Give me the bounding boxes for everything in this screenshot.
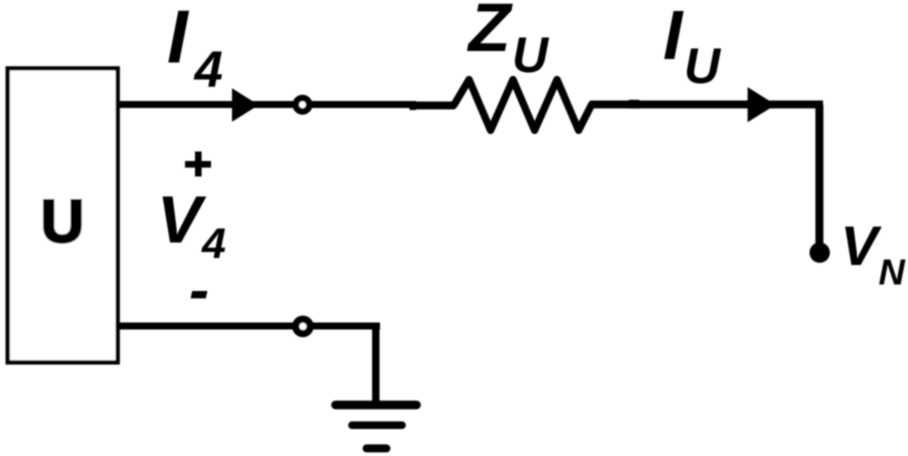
- svg-text:Z: Z: [467, 0, 514, 66]
- wire top right (resistor to corner): [590, 100, 823, 108]
- svg-text:4: 4: [194, 41, 223, 98]
- svg-text:I: I: [167, 0, 190, 79]
- svg-text:4: 4: [201, 220, 226, 268]
- resistor Z_U zigzag: [454, 80, 592, 131]
- wire right vertical: [815, 105, 823, 248]
- svg-text:U: U: [684, 38, 722, 94]
- wire bottom (box to ground corner): [118, 323, 380, 330]
- wire top left (box to resistor): [118, 101, 413, 108]
- svg-text:U: U: [41, 188, 84, 255]
- wire top left second segment: [410, 101, 455, 109]
- wire nub joint 2: [629, 100, 640, 109]
- svg-text:V: V: [157, 182, 207, 257]
- arrow I4 (current direction): [232, 88, 259, 122]
- svg-text:U: U: [512, 27, 550, 83]
- node dot VN: [810, 242, 830, 262]
- label plus (V4 polarity): [185, 161, 211, 168]
- label minus (V4 polarity): [191, 291, 208, 298]
- ground stem: [372, 326, 379, 405]
- source block U: [8, 68, 118, 362]
- ground bar 1: [336, 401, 417, 410]
- ground bar 2: [352, 421, 402, 429]
- terminal circle bottom: [296, 319, 310, 333]
- terminal circle top: [296, 98, 309, 111]
- svg-text:N: N: [879, 251, 906, 292]
- wire nub joint 1: [410, 101, 417, 110]
- svg-text:I: I: [663, 0, 684, 74]
- svg-text:V: V: [841, 214, 883, 277]
- ground bar 3: [367, 444, 387, 452]
- arrow IU (current direction): [748, 87, 776, 122]
